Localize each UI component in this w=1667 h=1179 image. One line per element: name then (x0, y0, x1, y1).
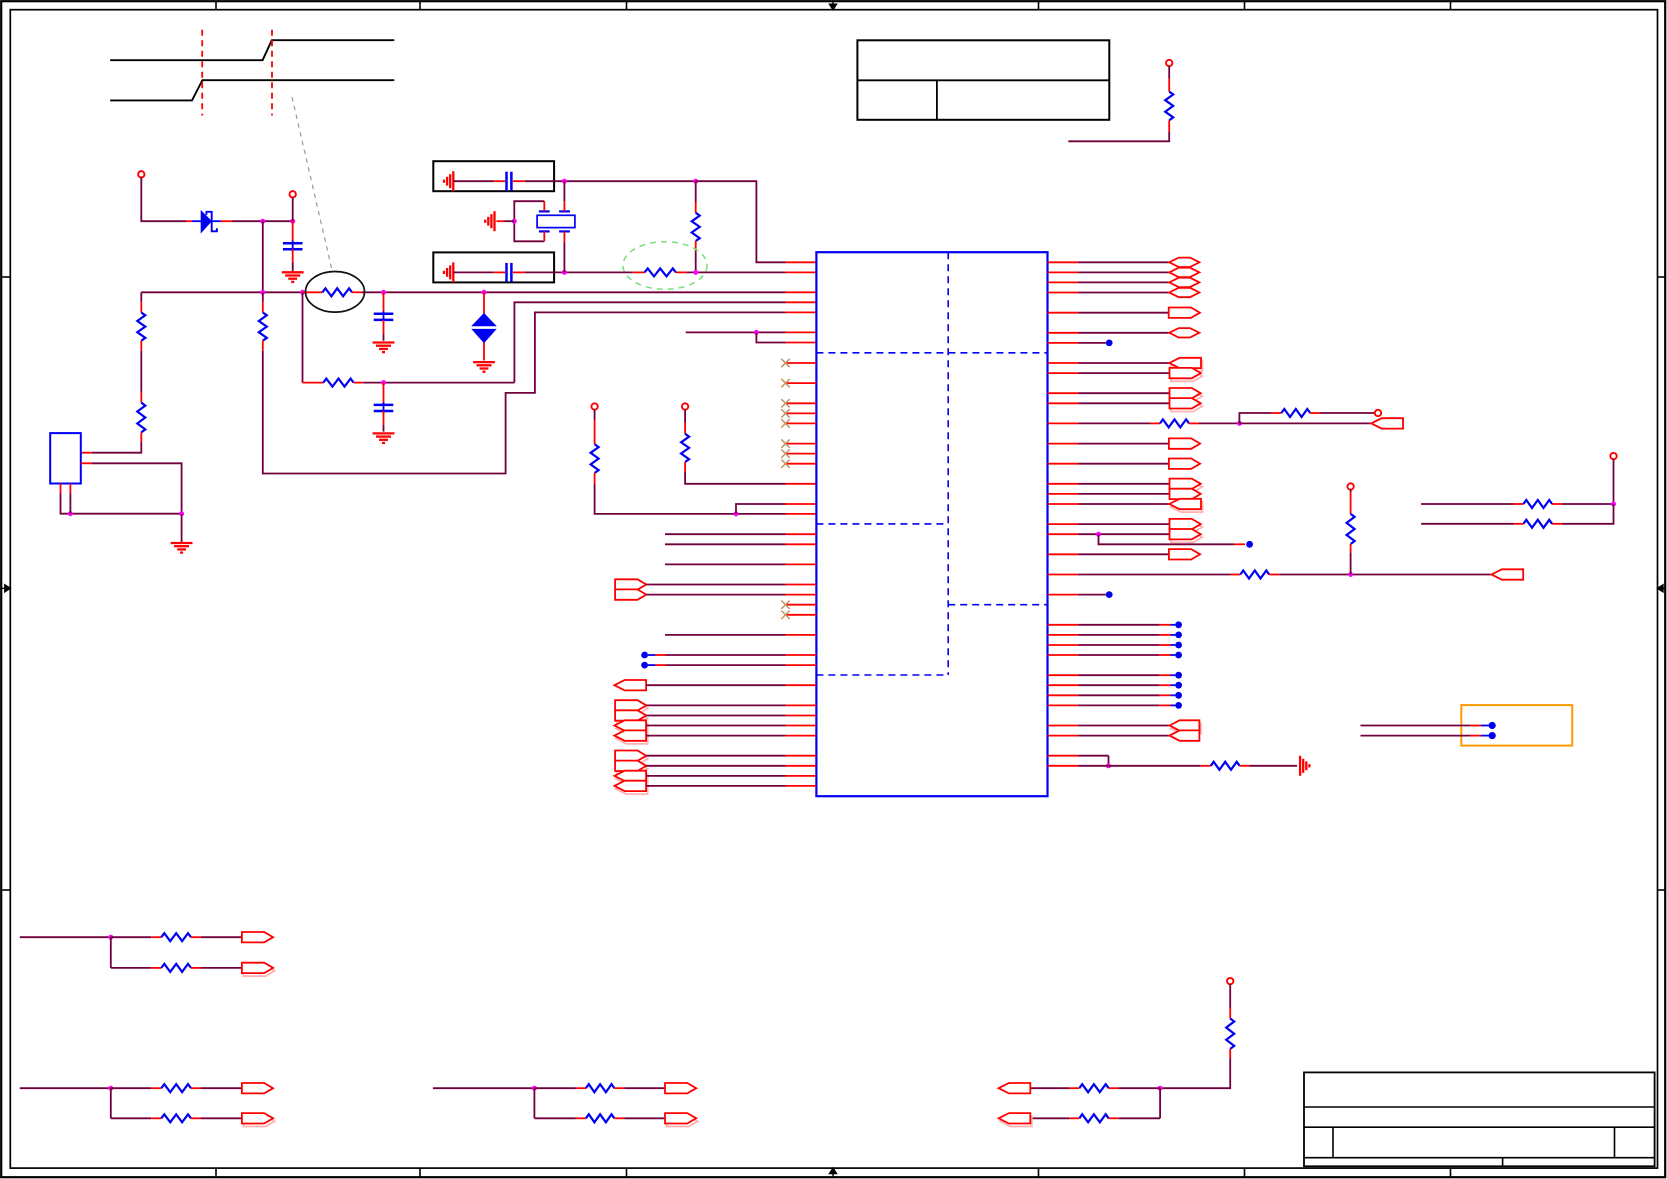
wire branch to IC pin n24 (736, 504, 816, 514)
timing diagram signal B (110, 80, 394, 100)
no-connect pin left n16 (781, 419, 816, 427)
wire net stub left n28 (665, 543, 816, 545)
input flag bottom right row 2 (999, 1113, 1032, 1126)
output flag right n27 (1048, 529, 1203, 542)
input flag left n52 (614, 781, 816, 794)
resistor R2 (137, 292, 145, 350)
wire with junction dot right n39 (1048, 652, 1183, 659)
output flag left n32 (615, 579, 816, 589)
timing cursor 1 (201, 30, 203, 116)
output flag left n33 (615, 589, 816, 599)
power terminal VCC1 (1166, 60, 1172, 78)
resistor R9 (591, 420, 599, 484)
output flag right n13 (1048, 388, 1203, 401)
no-connect pin left n14 (781, 399, 816, 407)
input flag left n46 (614, 720, 816, 733)
no-connect pin left n12 (781, 379, 816, 387)
resistor R16 (1421, 504, 1613, 528)
zener diode D1 (192, 211, 232, 232)
resistor R3 (137, 392, 145, 442)
resistor R6 (303, 379, 364, 387)
timing diagram signal A (110, 40, 394, 60)
resistor pair row 1 (111, 1084, 242, 1092)
output flag right n26 (1048, 519, 1203, 532)
wire D1 to node VDD (232, 219, 295, 224)
title block (1304, 1072, 1655, 1166)
load capacitor block bottom (433, 252, 554, 282)
input flag left n51 (614, 771, 816, 784)
power terminal VDD3 (682, 403, 688, 422)
capacitor C4 (453, 172, 525, 191)
wire crystal ground loop (512, 201, 545, 241)
leader line to R5 (292, 97, 332, 270)
ground (171, 543, 193, 553)
wire into module box A (1361, 722, 1496, 729)
resistor R19 (1030, 1114, 1160, 1122)
resistor pair row 2 (534, 1114, 665, 1122)
wire into module box B (1361, 732, 1496, 739)
wire stub with dot right n8 (1048, 340, 1113, 347)
input flag right n31 (1492, 569, 1524, 579)
wire J1 pin 2 (81, 463, 182, 513)
capacitor C3 (374, 383, 394, 432)
bus connector right n7 (1048, 328, 1200, 337)
flag pair row 2 (242, 963, 275, 976)
no-connect pin left n34 (781, 601, 816, 609)
module box (1461, 705, 1572, 746)
wire R4 to IC pin RSTn route (263, 312, 817, 473)
wire C4 to XTAL1 node (525, 179, 698, 184)
wire bus to R6 (302, 292, 304, 382)
resistor R13 (1048, 571, 1280, 579)
wire with junction dot right n37 (1048, 632, 1183, 639)
wire R17 to junction (1158, 1059, 1231, 1119)
crystal Y1 (537, 211, 575, 231)
revision table (857, 40, 1109, 120)
wire VIN to D1 (141, 187, 192, 221)
resistor pair row 2 (111, 964, 242, 972)
wire R9 to IC pin n25 (595, 484, 817, 516)
input flag right n10 (1048, 358, 1203, 371)
wire net stub left n27 (665, 533, 816, 535)
power terminal R17 (1227, 978, 1233, 1008)
resistor R18 (1030, 1084, 1160, 1092)
bus connector right n0 (1048, 258, 1200, 267)
wire jog right n49 (1048, 756, 1112, 769)
no-connect pin left n19 (781, 449, 816, 457)
highlight ellipse around R5 (306, 272, 365, 313)
flag pair row 1 (242, 932, 273, 942)
bus connector right n2 (1048, 278, 1200, 287)
input flag left n47 (614, 730, 816, 743)
output flag right n14 (1048, 398, 1203, 411)
input flag bottom right row 1 (999, 1083, 1031, 1093)
flag pair row 2 (665, 1113, 698, 1126)
input flag right n24 (1048, 499, 1203, 512)
wire to ground (181, 514, 183, 542)
TVS diode D2 (472, 292, 495, 360)
wire R13 to flag (1279, 572, 1491, 577)
wire with junction dot right n38 (1048, 642, 1183, 649)
wire J1 pin 4 (69, 484, 71, 514)
wire with junction dot left n39 (641, 652, 816, 659)
wire R11 to junction (1199, 421, 1242, 426)
wire with junction dot left n40 (641, 662, 816, 669)
wire net to junction (20, 935, 114, 968)
wire with junction dot right n44 (1048, 702, 1183, 709)
connector J1 (50, 433, 81, 483)
wire net to junction (433, 1086, 537, 1119)
capacitor C5 (453, 263, 525, 282)
resistor R4 (259, 292, 267, 350)
output flag right n18 (1048, 438, 1201, 448)
wire crystal pin to XTAL2 (563, 231, 565, 272)
no-connect pin left n10 (781, 359, 816, 367)
resistor pair row 2 (111, 1114, 242, 1122)
IC U1 (816, 252, 1047, 796)
resistor R26 (1048, 762, 1298, 770)
resistor pair row 1 (534, 1084, 665, 1092)
wire R2 to R3 (140, 351, 142, 392)
input flag left n42 (614, 680, 816, 690)
power terminal VDD2 (591, 403, 597, 420)
capacitor C2 (374, 292, 394, 341)
no-connect pin left n15 (781, 409, 816, 417)
output flag right n11 (1048, 368, 1203, 381)
resistor R8 (633, 268, 687, 276)
no-connect pin left n35 (781, 611, 816, 619)
output flag right n29 (1048, 549, 1201, 559)
output flag right n22 (1048, 479, 1203, 492)
wire VDD rail down to bus (262, 221, 264, 292)
flag pair row 2 (242, 1113, 275, 1126)
wire with junction dot right n43 (1048, 692, 1183, 699)
power terminal right n16 (1375, 410, 1381, 416)
wire crystal pin to XTAL1 (563, 181, 565, 211)
ground (485, 211, 494, 231)
wire net stub left n30 (665, 563, 816, 565)
flag pair row 1 (665, 1083, 696, 1093)
resistor pair row 1 (111, 933, 242, 941)
power terminal right pair (1610, 453, 1616, 470)
resistor R7 (692, 181, 700, 272)
wire R6 to IC pin n4 (363, 302, 816, 385)
output flag left n49 (615, 751, 816, 764)
wire jog right n27 with dot (1096, 532, 1253, 548)
resistor R14 (1347, 492, 1355, 575)
resistor R17 (1226, 1008, 1234, 1059)
ground (1300, 756, 1309, 776)
ground (473, 362, 495, 372)
power terminal R14 (1347, 483, 1353, 492)
power terminal VDD (290, 191, 296, 221)
wire R10 to IC pin n22 (685, 472, 816, 484)
highlight ellipse around R8 (623, 242, 707, 290)
power terminal VIN (138, 171, 144, 187)
output flag left n44 (615, 700, 816, 713)
wire net to junction (20, 1086, 114, 1119)
output flag right n23 (1048, 489, 1201, 499)
input flag right n16 (1239, 418, 1403, 428)
bus connector right n3 (1048, 288, 1200, 297)
resistor R11 (1048, 419, 1200, 427)
no-connect pin left n18 (781, 439, 816, 447)
wire power bus (141, 290, 816, 295)
output flag right n20 (1048, 459, 1201, 469)
wire net stub left n37 (665, 634, 816, 636)
double input flag right n46 n47 (1048, 720, 1201, 741)
resistor R15 (1421, 470, 1616, 508)
wire J1 pin 3 (61, 484, 185, 517)
timing cursor 2 (271, 30, 273, 116)
ground (444, 262, 453, 282)
output flag left n50 (615, 761, 816, 774)
output flag right n5 (1048, 308, 1200, 318)
wire with junction dot right n42 (1048, 682, 1183, 689)
capacitor C1 (283, 221, 303, 271)
wire XTAL1 to IC (696, 181, 817, 262)
no-connect pin left n20 (781, 460, 816, 468)
wire R3 to J1 pin 1 (81, 442, 142, 452)
resistor R1 (1165, 78, 1173, 132)
ground (282, 272, 304, 282)
bus connector right n1 (1048, 268, 1200, 277)
output flag left n45 (615, 710, 816, 723)
resistor R10 (681, 422, 689, 472)
wire stub to IC pins (686, 330, 817, 343)
load capacitor block top (433, 161, 554, 191)
ground (373, 343, 395, 353)
wire stub with dot right n33 (1048, 591, 1113, 598)
wire to ground (497, 220, 515, 222)
wire with junction dot right n41 (1048, 672, 1183, 679)
ground (373, 433, 395, 443)
flag pair row 1 (242, 1083, 273, 1093)
wire C5 to XTAL2 node (525, 270, 633, 275)
resistor R12 (1239, 409, 1374, 423)
resistor R5 (303, 288, 363, 296)
ground (444, 171, 453, 191)
wire XTAL2 to IC (687, 270, 816, 275)
wire R1 to net stub (1068, 132, 1169, 141)
wire with junction dot right n36 (1048, 621, 1183, 628)
